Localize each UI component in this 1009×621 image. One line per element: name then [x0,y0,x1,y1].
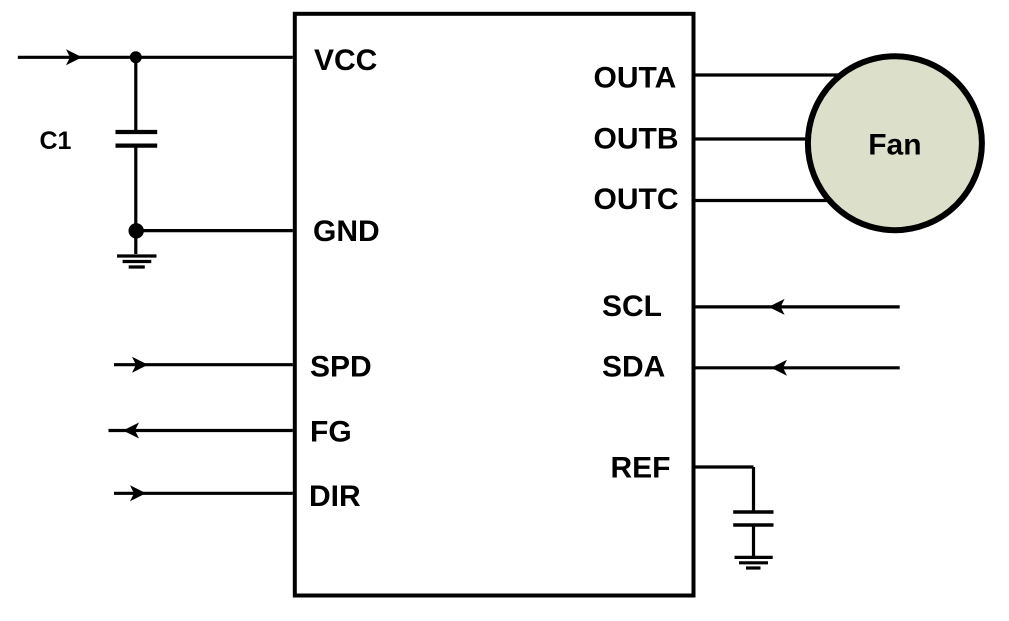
svg-text:OUTB: OUTB [594,122,679,155]
ground symbol (C1) [117,231,157,267]
svg-text:OUTC: OUTC [594,183,679,216]
svg-text:SCL: SCL [602,290,662,323]
IC U1 body [295,14,694,596]
wire REF horizontal [696,465,754,468]
arrowhead on SPD wire [132,357,148,373]
svg-text:OUTA: OUTA [594,62,677,95]
wire REF cap top lead [752,467,755,512]
svg-text:VCC: VCC [314,44,377,77]
arrowhead on FG wire [123,423,139,439]
wire C1 bottom lead [134,146,137,231]
arrowhead on SDA wire [771,360,787,376]
svg-text:SDA: SDA [602,350,665,383]
wire SPD input [114,363,293,366]
ground symbol (REF) [735,557,773,568]
fan M1 [808,56,982,230]
junction dot VCC node [130,51,142,63]
wire FG output [109,429,293,432]
wire REF cap bottom lead [752,525,755,557]
wire GND pin [136,229,293,232]
svg-text:C1: C1 [40,127,72,155]
wire VCC input [18,56,293,59]
svg-text:Fan: Fan [868,129,921,162]
arrowhead on DIR wire [130,485,146,501]
svg-text:FG: FG [310,416,352,449]
capacitor C1 [116,132,158,146]
svg-text:SPD: SPD [310,351,372,384]
capacitor C2 (REF) [733,512,773,525]
svg-text:GND: GND [313,215,380,248]
wire OUTA [696,73,881,76]
wire OUTB [696,137,881,140]
wire C1 top lead [134,57,137,132]
wire OUTC [696,199,881,202]
svg-text:DIR: DIR [309,480,361,513]
junction dot GND node [129,223,144,238]
svg-text:REF: REF [611,451,671,484]
wire SCL input [696,305,900,308]
arrowhead on VCC input wire [66,49,82,65]
arrowhead on SCL wire [769,299,785,315]
wire SDA input [696,366,900,369]
wire DIR input [114,492,293,495]
